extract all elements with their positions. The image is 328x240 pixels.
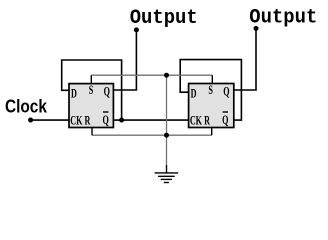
svg-text:S: S [89,85,94,98]
wire: U1 Q to Output node A [113,30,136,90]
D flip-flop U2 body [189,84,234,128]
wire: R bus (U1 R to U2 R) [92,134,212,136]
terminal dot: node A (Output 1) [134,27,139,32]
svg-text:Q: Q [223,86,229,99]
ground [155,165,179,182]
svg-text:Q: Q [222,114,228,127]
wire: U1 S pin stub [90,75,92,83]
svg-text:Q: Q [103,114,109,127]
junction: U1 Qbar feedback tap [119,118,124,123]
svg-text:R: R [84,115,90,128]
svg-text:D: D [71,88,77,101]
wire: U2 S pin stub [211,75,213,83]
svg-text:Clock: Clock [5,96,47,117]
svg-text:CK: CK [70,115,83,128]
svg-text:Q: Q [104,86,110,99]
svg-text:Output: Output [249,6,317,29]
wire: U2 Qbar feedback loop to U2 D [180,60,241,120]
svg-text:D: D [191,88,197,101]
terminal dot: Clock node [28,118,33,123]
wire: U1 Qbar feedback loop to U1 D [62,60,122,120]
wire: S bus (U1 S to U2 S) [91,74,212,76]
svg-text:CK: CK [190,115,203,128]
junction: S bus to ground stem [164,73,169,78]
svg-text:Output: Output [130,7,198,30]
terminal dot: node B (Output 2) [254,26,259,31]
wire: U2 R pin stub [211,128,213,136]
wire: U2 Q to Output node B [234,28,256,90]
wire: ground stem (S bus to ground) [166,75,168,166]
D flip-flop U1 body [69,84,113,128]
wire: U1 Qbar to U2 CK [113,119,188,121]
svg-text:S: S [208,85,213,98]
junction: R bus to ground stem [164,133,169,138]
wire: U1 R pin stub [91,127,93,135]
wire: Clock to U1 CK [31,119,69,121]
svg-text:R: R [204,115,210,128]
